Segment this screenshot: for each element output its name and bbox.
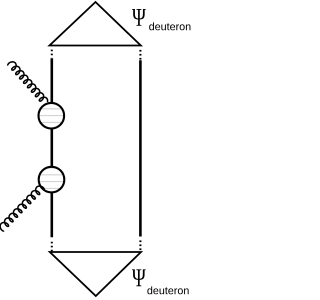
label deuteron subscript bottom: [147, 286, 188, 294]
label psi top: [132, 9, 146, 26]
right nucleon line bottom dotted: [139, 240, 141, 250]
label psi bottom: [132, 269, 146, 286]
photon coil 1: [8, 62, 48, 102]
interaction blob 1: [37, 103, 66, 129]
right nucleon line top dotted: [139, 50, 141, 60]
top deuteron vertex triangle: [50, 2, 141, 46]
left nucleon line bottom dotted: [51, 242, 53, 252]
right nucleon line solid: [139, 60, 142, 236]
interaction blob 2: [37, 167, 66, 193]
left nucleon line top dotted: [51, 50, 53, 58]
photon coil 2: [0, 186, 44, 231]
left nucleon line solid: [50, 58, 53, 237]
label deuteron subscript top: [149, 22, 190, 30]
bottom deuteron vertex triangle: [50, 252, 141, 296]
